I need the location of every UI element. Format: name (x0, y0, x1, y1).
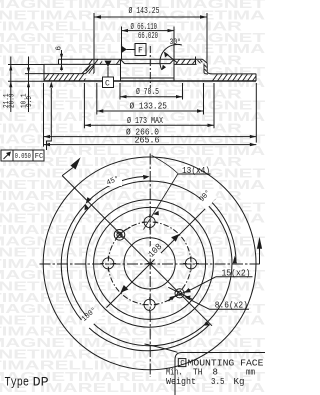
45 degree arc (87, 177, 148, 203)
bore chamfers (121, 59, 125, 63)
small 6mm step dimension (55, 46, 63, 71)
svg-text:mm: mm (246, 368, 255, 378)
hatch hat wall left (86, 65, 91, 71)
dim 173 MAX (84, 83, 214, 128)
dimension diameter 143.25 (94, 13, 207, 73)
dim 266.0 (44, 83, 257, 147)
svg-text:3.5: 3.5 (211, 377, 225, 387)
svg-text:Ø 133.25: Ø 133.25 (130, 102, 168, 112)
bolt circle dashed (108, 222, 191, 305)
bore inner line (121, 77, 175, 79)
left hat wall diagonals (86, 65, 95, 74)
circle r82 (67, 181, 232, 346)
svg-text:20.9: 20.9 (9, 94, 17, 109)
svg-text:Weight: Weight (166, 377, 196, 387)
band top left (44, 73, 86, 75)
bolt hole top (144, 216, 155, 227)
rotation direction arrow (62, 157, 80, 175)
svg-text:66.020: 66.020 (138, 31, 158, 41)
hatch friction band right (213, 74, 218, 81)
NE diagonal centerline (106, 199, 215, 308)
svg-text:C: C (105, 79, 110, 88)
left vertical dimension 10.1/9.9 (27, 57, 30, 113)
svg-text:0.050: 0.050 (15, 153, 31, 161)
svg-text:13(x4): 13(x4) (182, 166, 210, 176)
horizontal centerline (40, 263, 260, 265)
svg-text:9.9: 9.9 (26, 96, 34, 107)
band inner circle (86, 200, 214, 328)
locating hole double circle top-left (114, 227, 130, 240)
hatch friction band left (44, 74, 49, 81)
datum C arrow and box (103, 61, 114, 88)
disc bottom face (thick) (44, 80, 102, 82)
band top right (213, 73, 257, 75)
dim 78.5 (120, 83, 183, 100)
svg-text:Kg: Kg (234, 377, 245, 387)
svg-text:DP: DP (33, 374, 49, 389)
right hat wall (203, 59, 208, 63)
mounting face top line A (59, 58, 203, 60)
label 13(x4) (144, 155, 211, 229)
180 degree arc (61, 205, 209, 351)
bolt hole right (185, 258, 196, 269)
extension lines to left margin (8, 64, 44, 66)
svg-text:Type: Type (5, 374, 30, 389)
svg-text:F: F (138, 47, 143, 56)
hatch hat web right (176, 59, 180, 64)
left vertical dimension 21.1/20.9 (9, 57, 12, 113)
bore circle (124, 238, 175, 289)
centerline of section (dashed) (149, 46, 151, 88)
svg-text:Ø 173 MAX: Ø 173 MAX (127, 116, 163, 126)
svg-text:6: 6 (55, 46, 63, 51)
label 15(x2) (184, 277, 252, 293)
bore edges (120, 59, 122, 81)
outer circle (43, 157, 256, 370)
dimension diameter 66.110/66.020 (122, 27, 175, 60)
svg-text:Ø 78.5: Ø 78.5 (136, 87, 159, 97)
bolt holes (100, 214, 198, 312)
hatch: friction band / web / walls (44, 59, 256, 81)
right vertical arrow (257, 237, 262, 264)
surface B right (174, 63, 197, 65)
surface B left (44, 63, 121, 65)
step vertical (58, 59, 60, 64)
bolt hole bottom (144, 299, 155, 310)
screw hole bottom-right with X (168, 287, 192, 301)
feature control frame runout (1, 82, 53, 162)
vertical centerline (149, 154, 151, 378)
center mark (147, 262, 153, 264)
30 degree chamfer dimension (160, 38, 182, 70)
svg-text:FC: FC (35, 153, 44, 161)
90 degree arc (208, 198, 237, 262)
NW diagonal centerline (62, 176, 212, 326)
dim 133.25 (97, 83, 204, 115)
svg-text:8.6(x2): 8.6(x2) (215, 301, 248, 311)
disc right edge (255, 74, 257, 81)
disc left edge (43, 64, 45, 81)
diameter 108 bolt circle dimension along NE diagonal (120, 234, 179, 293)
datum F box (122, 44, 147, 56)
label 8.6(x2) (184, 296, 249, 310)
hatch hat web left (89, 59, 93, 64)
bolt hole left (103, 258, 114, 269)
svg-text:Ø 143.25: Ø 143.25 (129, 6, 160, 16)
hat circle (94, 207, 206, 319)
svg-text:15(x2): 15(x2) (222, 268, 251, 278)
dim 265.6 (44, 144, 257, 146)
svg-text:265.6: 265.6 (135, 135, 160, 145)
